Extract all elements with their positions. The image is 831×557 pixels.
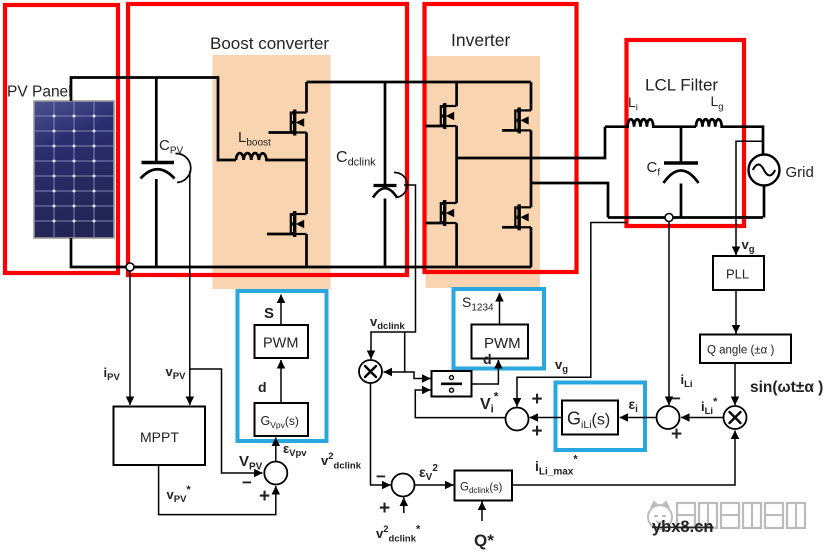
inverter left leg xyxy=(455,82,458,267)
svg-text:+: + xyxy=(379,498,390,519)
wire divider to PWM2 d xyxy=(472,360,499,384)
transistor Q4 (inverter top-right) xyxy=(515,107,531,133)
wire eVpv to GVpv xyxy=(275,438,277,462)
summer VPV xyxy=(264,462,287,485)
current controller blue frame xyxy=(556,383,646,451)
svg-text:−: − xyxy=(671,389,681,408)
inductor Lg xyxy=(696,119,763,154)
block Gdclink(s) xyxy=(455,471,513,501)
wire MPPT output vPV* xyxy=(159,465,276,515)
svg-text:ybx8.cn: ybx8.cn xyxy=(652,518,713,536)
svg-text:Inverter: Inverter xyxy=(451,30,510,50)
svg-text:sin(ωt±α ): sin(ωt±α ) xyxy=(750,379,823,396)
svg-text:+: + xyxy=(532,389,543,410)
inverter shaded region xyxy=(426,56,541,288)
wire Q2 gate xyxy=(267,233,293,236)
transistor Q3 (inverter top-left) xyxy=(441,103,457,129)
svg-text:S: S xyxy=(264,305,274,322)
divider block xyxy=(432,371,472,397)
wire Q* input xyxy=(481,502,483,522)
multiplier sin xyxy=(724,406,747,429)
boost output rail xyxy=(307,81,532,84)
boost converter shaded region xyxy=(213,55,331,289)
LCL top rail with inductor Li xyxy=(605,119,696,126)
inverter control blue frame xyxy=(454,289,545,369)
svg-text:d: d xyxy=(258,379,267,395)
wire iLi sense xyxy=(668,222,670,406)
watermark text xyxy=(677,503,805,528)
wire vg feedforward xyxy=(517,223,627,407)
wire inverter phase A to LCL xyxy=(457,127,605,158)
transistor Q1 (boost top MOSFET) xyxy=(291,110,307,136)
wire v2dclink ref xyxy=(403,498,405,514)
ground rail xyxy=(134,266,531,269)
wire PV- to ground rail xyxy=(71,238,126,267)
wire eV2 to Gdclink xyxy=(415,484,454,486)
boost control blue frame xyxy=(238,291,327,441)
svg-text:−: − xyxy=(376,467,386,486)
transistor Q6 (inverter bottom-right) xyxy=(515,204,531,230)
block PLL xyxy=(713,256,764,290)
AC source Grid xyxy=(749,155,780,218)
svg-text:Boost converter: Boost converter xyxy=(210,34,329,53)
summer v2dclink xyxy=(392,474,415,497)
svg-text:+: + xyxy=(671,424,682,445)
capacitor Cdclink xyxy=(373,82,407,267)
wire vPV sense xyxy=(189,171,191,405)
inductor Lboost xyxy=(236,153,307,160)
block Q angle xyxy=(700,335,791,364)
wire vdclink sense xyxy=(371,185,416,359)
wire PV+ to boost input xyxy=(71,78,236,161)
summer Vi* xyxy=(506,408,529,431)
svg-text:Q angle (±α ): Q angle (±α ) xyxy=(707,345,774,357)
wire Q5 gate xyxy=(426,222,444,225)
wire iPV sense xyxy=(129,271,131,405)
wire Q6 gate xyxy=(502,226,518,229)
transistor Q2 (boost bottom MOSFET) xyxy=(291,211,307,237)
wire Vi* into divider xyxy=(415,390,505,418)
svg-text:PLL: PLL xyxy=(726,267,749,282)
PV Panel red frame xyxy=(5,5,118,273)
block GVpv(s) xyxy=(255,403,309,436)
summer iLi xyxy=(657,406,680,429)
PV panel module xyxy=(34,101,114,238)
boost switch leg xyxy=(305,82,308,267)
svg-text:−: − xyxy=(242,473,252,492)
block MPPT xyxy=(114,407,206,466)
node iLi sense xyxy=(665,214,673,222)
svg-text:MPPT: MPPT xyxy=(140,429,179,445)
node iPV sense xyxy=(126,263,134,271)
wire iLi* to summer xyxy=(681,417,724,419)
wire S to boost switches xyxy=(280,295,282,326)
LCL filter red frame xyxy=(627,40,745,226)
Boost converter red frame xyxy=(128,4,407,275)
svg-text:+: + xyxy=(532,421,543,442)
wire PLL to Q angle xyxy=(735,290,737,334)
svg-text:PV Panel: PV Panel xyxy=(7,84,72,101)
svg-text:+: + xyxy=(259,486,270,507)
svg-text:d: d xyxy=(483,351,492,367)
wire d to PWM1 xyxy=(280,360,282,403)
wire v2dclink down to summer xyxy=(371,383,391,485)
inverter right leg xyxy=(530,82,533,267)
wire GiLi output to Vi summer xyxy=(530,417,563,419)
wire inverter phase B to LCL xyxy=(531,183,608,218)
Inverter red frame xyxy=(425,4,577,272)
wire vdclink to divider xyxy=(405,372,431,379)
svg-text:PWM: PWM xyxy=(263,336,298,352)
svg-text:Grid: Grid xyxy=(786,164,814,181)
wire vPV branch to summer xyxy=(190,369,263,473)
wire Q3 gate xyxy=(426,125,444,128)
svg-text:Q*: Q* xyxy=(474,531,494,550)
transistor Q5 (inverter bottom-left) xyxy=(441,200,457,226)
block PWM1 xyxy=(255,325,309,358)
block PWM2 xyxy=(472,325,529,359)
wire iLimax to multiplier xyxy=(512,431,735,486)
wire sin reference xyxy=(734,363,736,405)
svg-text:PWM: PWM xyxy=(484,335,521,352)
block GiLi(s) xyxy=(562,401,618,435)
capacitor Cf xyxy=(664,127,699,218)
capacitor CPV xyxy=(141,78,191,268)
wire S1234 to inverter switches xyxy=(499,293,501,325)
svg-text:LCL Filter: LCL Filter xyxy=(645,76,718,95)
wire vdclink branch xyxy=(384,332,405,372)
wire grid to PLL xyxy=(736,141,763,255)
wire ei into GiLi xyxy=(620,417,657,419)
wire Q4 gate xyxy=(502,129,518,132)
multiplier squarer xyxy=(359,360,382,383)
watermark cat logo xyxy=(648,502,672,529)
LCL bottom rail xyxy=(608,216,763,219)
wire Q1 gate xyxy=(269,131,294,134)
